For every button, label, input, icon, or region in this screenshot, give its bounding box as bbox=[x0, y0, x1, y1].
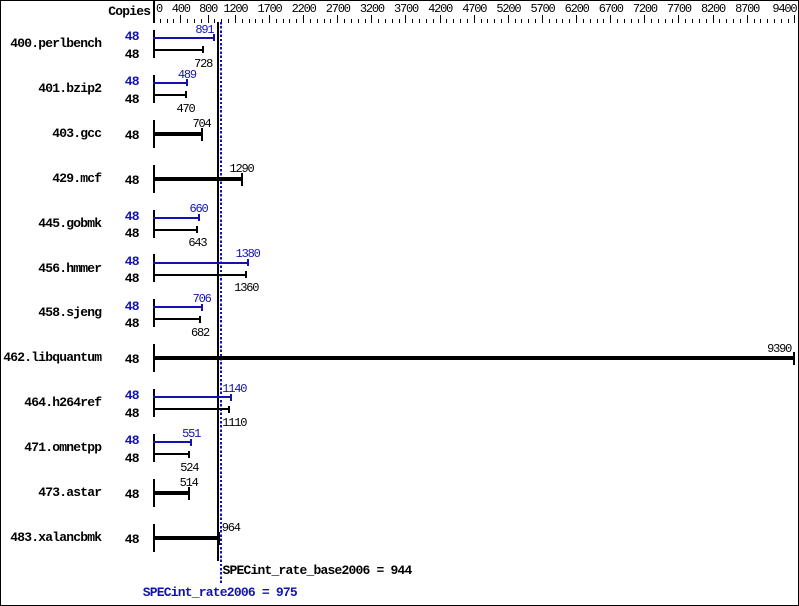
456.hmmer left cap bbox=[153, 254, 155, 282]
456.hmmer base copies 48 bbox=[100, 272, 139, 285]
benchmark 458.sjeng label bbox=[0, 306, 101, 319]
458.sjeng base value 682 bbox=[191, 327, 209, 339]
400.perlbench peak bar bbox=[153, 37, 215, 39]
464.h264ref base bar bbox=[153, 408, 230, 410]
473.astar left cap bbox=[153, 479, 155, 507]
462.libquantum base value 9390 bbox=[767, 343, 791, 355]
473.astar copies 48 bbox=[100, 488, 139, 501]
445.gobmk left cap bbox=[153, 210, 155, 238]
456.hmmer base bar bbox=[153, 274, 247, 276]
benchmark 483.xalancbmk label bbox=[0, 531, 101, 544]
benchmark 401.bzip2 label bbox=[0, 82, 101, 95]
401.bzip2 base bar bbox=[153, 94, 187, 96]
400.perlbench peak copies 48 bbox=[100, 30, 139, 43]
400.perlbench left cap bbox=[153, 30, 155, 58]
summary: peak metric bbox=[143, 586, 297, 599]
benchmark 473.astar label bbox=[0, 486, 101, 499]
458.sjeng peak copies 48 bbox=[100, 300, 139, 313]
445.gobmk peak value 660 bbox=[190, 203, 208, 215]
462.libquantum copies 48 bbox=[100, 353, 139, 366]
401.bzip2 left cap bbox=[153, 75, 155, 103]
483.xalancbmk copies 48 bbox=[100, 533, 139, 546]
456.hmmer peak copies 48 bbox=[100, 255, 139, 268]
benchmark 464.h264ref label bbox=[0, 396, 101, 409]
483.xalancbmk base value 964 bbox=[222, 522, 240, 534]
403.gcc copies 48 bbox=[100, 129, 139, 142]
benchmark 456.hmmer label bbox=[0, 262, 101, 275]
471.omnetpp base bar bbox=[153, 453, 190, 455]
400.perlbench peak value 891 bbox=[195, 24, 213, 36]
benchmark 445.gobmk label bbox=[0, 217, 101, 230]
464.h264ref peak value 1140 bbox=[222, 383, 246, 395]
y-axis line bbox=[153, 1, 155, 23]
456.hmmer peak bar bbox=[153, 262, 249, 264]
456.hmmer peak value 1380 bbox=[236, 248, 260, 260]
x-axis minor ticks bbox=[160, 19, 161, 23]
403.gcc base value 704 bbox=[193, 118, 211, 130]
458.sjeng base bar bbox=[153, 318, 201, 320]
464.h264ref peak copies 48 bbox=[100, 389, 139, 402]
401.bzip2 peak value 489 bbox=[178, 69, 196, 81]
483.xalancbmk base bar (thick) bbox=[153, 536, 220, 540]
464.h264ref peak bar bbox=[153, 396, 232, 398]
462.libquantum base bar (thick) bbox=[153, 356, 795, 360]
445.gobmk base copies 48 bbox=[100, 227, 139, 240]
471.omnetpp peak bar bbox=[153, 441, 192, 443]
458.sjeng left cap bbox=[153, 299, 155, 327]
reference line: SPECint_rate2006 = 975 (dotted blue) bbox=[220, 22, 222, 583]
400.perlbench base value 728 bbox=[194, 58, 212, 70]
429.mcf base value 1290 bbox=[230, 163, 254, 175]
456.hmmer base value 1360 bbox=[234, 282, 258, 294]
445.gobmk base bar bbox=[153, 229, 198, 231]
473.astar base bar (thick) bbox=[153, 491, 190, 495]
benchmark 462.libquantum label bbox=[0, 351, 101, 364]
benchmark 403.gcc label bbox=[0, 127, 101, 140]
473.astar base value 514 bbox=[180, 477, 198, 489]
400.perlbench base copies 48 bbox=[100, 48, 139, 61]
464.h264ref base copies 48 bbox=[100, 407, 139, 420]
x-axis scale labels bbox=[156, 3, 162, 15]
445.gobmk peak bar bbox=[153, 217, 200, 219]
401.bzip2 base copies 48 bbox=[100, 93, 139, 106]
445.gobmk peak copies 48 bbox=[100, 210, 139, 223]
458.sjeng peak bar bbox=[153, 306, 203, 308]
benchmark 471.omnetpp label bbox=[0, 441, 101, 454]
429.mcf base bar (thick) bbox=[153, 177, 243, 181]
445.gobmk base value 643 bbox=[188, 237, 206, 249]
benchmark 429.mcf label bbox=[0, 172, 101, 185]
458.sjeng base copies 48 bbox=[100, 317, 139, 330]
Copies column header bbox=[0, 5, 150, 18]
reference line: SPECint_rate_base2006 = 944 (solid black) bbox=[217, 22, 219, 561]
401.bzip2 peak bar bbox=[153, 82, 188, 84]
401.bzip2 peak copies 48 bbox=[100, 75, 139, 88]
464.h264ref base value 1110 bbox=[222, 417, 246, 429]
403.gcc base bar (thick) bbox=[153, 132, 203, 136]
464.h264ref left cap bbox=[153, 389, 155, 417]
benchmark 400.perlbench label bbox=[0, 37, 101, 50]
471.omnetpp base copies 48 bbox=[100, 452, 139, 465]
429.mcf copies 48 bbox=[100, 174, 139, 187]
471.omnetpp left cap bbox=[153, 434, 155, 462]
summary: base metric bbox=[223, 564, 412, 577]
458.sjeng peak value 706 bbox=[193, 293, 211, 305]
483.xalancbmk left cap bbox=[153, 524, 155, 552]
462.libquantum left cap bbox=[153, 344, 155, 372]
429.mcf left cap bbox=[153, 165, 155, 193]
471.omnetpp peak value 551 bbox=[182, 428, 200, 440]
471.omnetpp base value 524 bbox=[180, 462, 198, 474]
471.omnetpp peak copies 48 bbox=[100, 434, 139, 447]
x-axis major ticks bbox=[180, 15, 181, 23]
403.gcc left cap bbox=[153, 120, 155, 148]
400.perlbench base bar bbox=[153, 49, 204, 51]
401.bzip2 base value 470 bbox=[177, 103, 195, 115]
